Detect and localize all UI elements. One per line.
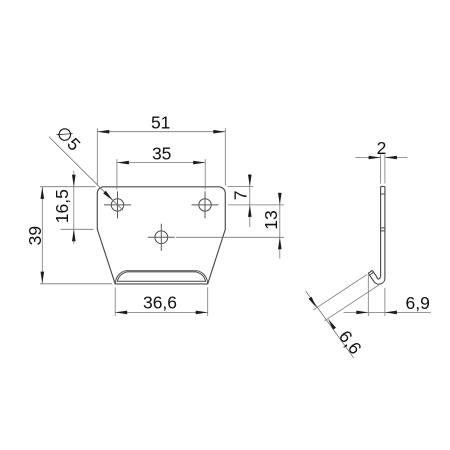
dimension 16,5 bottom extension [61,228,94,230]
dimension 6,6 upper arrow [309,297,317,308]
dimension 2 line left segment [355,157,380,159]
svg-text:39: 39 [25,226,45,245]
dimension 6,9 left extension [367,275,369,316]
flange right inner curve [196,272,206,282]
hole center crosshair [148,236,175,238]
dimension 36,6 right arrow [196,311,208,315]
side view corner tangent tick [381,193,385,195]
side view outer bend [374,278,385,284]
dimension 6,6 upper extension [313,274,367,310]
dimension 35 left extension [116,159,118,189]
hole top-right [199,199,211,211]
dimension 16,5 top arrow [72,175,76,187]
dimension 16,5 line [73,171,75,244]
dimension 13 bottom arrow [278,237,282,249]
dimension 35 right arrow [193,161,205,165]
dimension 16,5 top extension [40,186,96,188]
dimension 51 right extension [224,128,226,185]
dimension 6,6 line [306,291,354,358]
dimension 51 right arrow [213,130,225,134]
side view left edge [380,187,382,277]
flange top edge (inner) [127,271,196,273]
side view top edge [381,186,385,188]
svg-text:16,5: 16,5 [52,189,72,223]
dimension 35 left arrow [117,161,129,165]
dimension 6,9 right arrow [385,311,397,315]
dimension 39 line [41,187,43,284]
dimension 13 bottom extension [176,236,284,238]
side view foot end cap [368,270,372,273]
svg-text:36,6: 36,6 [143,292,177,312]
dimension 7 bottom extension / 13 top extension [228,204,284,206]
diameter 5 leader arrow [103,191,113,201]
flange right outer curve [197,271,207,284]
svg-text:6,9: 6,9 [406,293,430,313]
dimension 36,6 line [115,311,208,313]
dimension 51 left arrow [97,130,109,134]
flange fold line [117,280,205,282]
svg-text:∅5: ∅5 [52,122,85,155]
dimension 2 right arrow [385,156,397,160]
side view kink tick upper [381,227,385,229]
dimension 6,6 lower arrow [328,319,336,330]
svg-text:51: 51 [151,113,170,133]
dimension 7 bottom arrow [248,205,252,217]
dimension 51 line [97,131,225,133]
hole top-right crosshair [192,204,219,206]
side view inner bend [376,276,380,279]
dimension 13 top arrow [278,193,282,205]
dimension 35 right extension [204,159,206,189]
svg-text:7: 7 [231,191,251,201]
dimension 36,6 right extension [207,287,209,316]
flange top edge (outer) [126,270,198,272]
dimension 2 right extension [384,155,386,184]
hole top-left [111,199,123,211]
flange left inner curve [117,272,127,282]
dimension 36,6 left extension [114,287,116,316]
diameter 5 leader line [49,137,123,211]
dimension 13 line [279,193,281,259]
svg-text:6,6: 6,6 [335,327,366,358]
svg-text:13: 13 [261,210,281,229]
dimension 36,6 left arrow [115,311,127,315]
dimension 7 line [249,174,251,227]
dimension 39 bottom extension [40,283,112,285]
hole center [155,231,168,244]
bracket front view outline [97,187,225,284]
dimension 35 line [117,162,205,164]
hole top-left crosshair [104,204,131,206]
side view foot inner face [372,270,376,276]
dimension 39 top arrow [41,187,45,199]
dimension 16,5 bottom arrow [72,229,76,241]
side view right edge [384,187,386,279]
flange left outer curve [115,271,125,284]
dimension 39 bottom arrow [41,272,45,284]
svg-text:2: 2 [377,138,387,158]
dimension 6,9 line [344,311,431,313]
side view foot end inner line [370,272,374,275]
dimension 51 left extension [96,128,98,185]
dimension 6,9 left arrow [356,311,368,315]
dimension 2 left arrow [369,156,381,160]
dimension 7 top extension [228,186,254,188]
dimension 2 line right segment [385,157,408,159]
dimension 2 left extension [380,155,382,184]
side view foot outer face [368,273,374,281]
side view kink tick lower [381,230,385,232]
svg-text:35: 35 [152,144,171,164]
dimension 7 top arrow [248,175,252,187]
dimension 6,9 right extension [384,288,386,316]
dimension 6,6 lower extension [325,285,380,321]
